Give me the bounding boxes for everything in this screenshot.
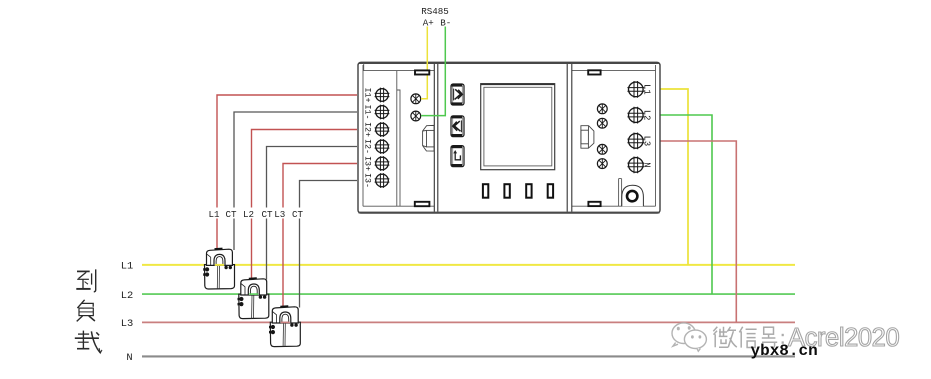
right block small screw 3 — [597, 144, 607, 154]
indicator slot 4 — [548, 184, 553, 198]
wire L3 voltage tap (red, meter to bus) — [657, 141, 736, 322]
watermark colon — [782, 334, 784, 344]
svg-text:N: N — [642, 162, 652, 167]
svg-text:A+: A+ — [423, 18, 434, 29]
watermark text 信 — [739, 327, 756, 348]
current transformer CT3 — [269, 306, 300, 347]
wire bus L1 (yellow phase line) — [142, 264, 795, 266]
svg-text:CT: CT — [292, 209, 304, 220]
svg-text:I3+: I3+ — [363, 156, 373, 171]
terminal N screw — [627, 157, 644, 174]
divider left (double line) — [433, 64, 435, 212]
text 负 (load-1) — [77, 300, 95, 322]
meter bottom rail — [358, 212, 659, 214]
current transformer CT2 — [238, 278, 269, 319]
svg-text:L1: L1 — [121, 261, 133, 273]
svg-text:L3: L3 — [642, 136, 652, 147]
text 到 (to) — [76, 269, 95, 292]
indicator slot 3 — [526, 184, 531, 198]
wire bus L2 (green phase line) — [142, 293, 795, 295]
CT label L1 — [207, 208, 305, 221]
CT label CT — [224, 208, 238, 219]
current transformer CT1 — [203, 249, 234, 290]
svg-text:L3: L3 — [274, 209, 285, 220]
wire I3+ (red CT secondary to terminal) — [283, 164, 357, 307]
svg-text:L2: L2 — [642, 110, 652, 121]
svg-text:L3: L3 — [121, 318, 133, 330]
watermark WeChat icon — [672, 323, 706, 351]
right block inner bottom line — [572, 205, 656, 207]
node RS485 label — [421, 6, 451, 29]
right block bottom tab — [588, 202, 600, 206]
terminal recess wall — [397, 71, 400, 207]
CT label CT — [291, 208, 305, 219]
divider right (double line) — [566, 64, 568, 212]
svg-text:I1+: I1+ — [363, 87, 373, 102]
right block inner top line — [572, 70, 656, 72]
wire bus L3 (red phase line) — [142, 321, 795, 323]
wire I2- (black CT secondary to terminal) — [267, 147, 358, 280]
right block small screw 2 — [597, 118, 607, 128]
button U1 up (scroll) — [451, 84, 464, 105]
svg-text:I3-: I3- — [363, 173, 373, 188]
terminal L1 screw — [627, 81, 644, 98]
meter U1 body — [358, 62, 660, 213]
wire L1 voltage tap (yellow, meter to bus) — [657, 89, 688, 265]
terminal I2- screw — [375, 139, 390, 154]
terminal I1+ screw — [375, 88, 390, 103]
svg-text:L1: L1 — [208, 209, 220, 220]
svg-text:L2: L2 — [121, 290, 133, 302]
button U1 enter — [451, 146, 464, 167]
svg-text:I2+: I2+ — [363, 122, 373, 137]
svg-text:N: N — [126, 352, 132, 364]
svg-text:I1-: I1- — [363, 104, 373, 119]
wire L2 voltage tap (green, meter to bus) — [657, 115, 712, 294]
CT3 window conductor — [281, 321, 290, 323]
right DIN latch — [581, 126, 594, 149]
terminal I3- screw — [375, 173, 390, 188]
left block inner top line — [363, 70, 434, 72]
svg-text:ybx8.cn: ybx8.cn — [751, 342, 818, 360]
watermark text 号 — [762, 327, 777, 347]
CT label L2 — [242, 208, 256, 219]
right block small screw 1 — [597, 104, 607, 114]
svg-text:CT: CT — [261, 209, 273, 220]
meter top rail — [358, 62, 660, 64]
svg-text:L1: L1 — [642, 84, 652, 95]
LCD display U1 — [481, 84, 555, 170]
left DIN latch — [423, 125, 434, 151]
wire I1- (black CT secondary to terminal) — [234, 112, 357, 250]
CT label CT — [260, 208, 274, 219]
CT label L3 — [273, 208, 287, 219]
RS485 A+ screw — [411, 94, 421, 104]
left block inner bottom line — [363, 205, 434, 207]
wire I2+ (red CT secondary to terminal) — [252, 130, 358, 279]
terminal L3 screw — [627, 133, 644, 150]
svg-text:RS485: RS485 — [421, 6, 449, 17]
wire RS485 A+ (yellow) — [421, 27, 427, 99]
svg-text:CT: CT — [225, 209, 237, 220]
seal screw housing — [619, 179, 644, 207]
terminal I3+ screw — [375, 156, 390, 171]
terminal L2 screw — [627, 107, 644, 124]
wire bus N (neutral line) — [142, 355, 795, 357]
watermark text 微 — [713, 327, 737, 348]
meter inner right edge — [655, 65, 657, 206]
text 载 (load-2) — [75, 331, 102, 353]
wire I3- (black CT secondary to terminal) — [300, 181, 358, 308]
svg-text:I2-: I2- — [363, 139, 373, 154]
left block top tab — [415, 70, 429, 74]
CT1 window conductor — [215, 264, 224, 266]
RS485 B- screw — [411, 111, 421, 121]
right block top tab — [588, 70, 600, 74]
button U1 down (scroll back) — [451, 116, 464, 137]
indicator slot 2 — [504, 184, 509, 198]
meter inner left edge — [362, 65, 364, 206]
CT2 window conductor — [249, 293, 258, 295]
terminal I1- screw — [375, 105, 390, 120]
indicator slot 1 — [483, 184, 488, 198]
wire RS485 B- (green) — [421, 27, 445, 116]
terminal I2+ screw — [375, 122, 390, 137]
left block bottom tab — [415, 202, 430, 206]
right block small screw 4 — [597, 158, 607, 168]
wire I1+ (red CT secondary to terminal) — [217, 95, 357, 249]
svg-text:L2: L2 — [243, 209, 254, 220]
